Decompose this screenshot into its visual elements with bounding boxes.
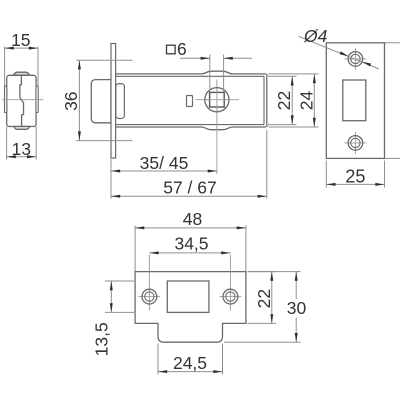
strike plate outline	[135, 272, 246, 343]
arrow 36 bottom	[78, 131, 81, 140]
latch opening	[343, 80, 366, 121]
arrow 48 left	[135, 226, 144, 229]
arrow 13 right	[27, 155, 36, 158]
dim line 25	[326, 183, 384, 185]
centerline horizontal	[2, 99, 44, 101]
arrow 22 top	[291, 76, 294, 85]
arrow 34,5 left	[149, 251, 158, 254]
dim 25 extension left	[325, 161, 327, 188]
arrow 30 bottom	[295, 333, 298, 342]
case right end outer line	[266, 74, 268, 127]
dim line 30 lower segment	[295, 318, 297, 343]
arrow 35/45 left	[111, 170, 120, 173]
arrow 57/67 left	[111, 195, 120, 198]
arrow 30 top	[295, 272, 298, 281]
dim line 24	[313, 74, 315, 127]
dim 48 extension right	[245, 226, 247, 272]
dim 30 extension top	[248, 271, 301, 273]
hole centerline right vertical	[229, 255, 231, 311]
svg-text:25: 25	[345, 167, 365, 187]
svg-text:36: 36	[61, 91, 81, 110]
arrow square6 right	[224, 57, 233, 60]
latch bolt side view	[91, 80, 111, 123]
frame line from plate bottom right corner	[385, 157, 400, 159]
arrow 13,5 bottom	[110, 303, 113, 312]
dim line 48	[135, 227, 246, 229]
dim square6 extension left	[209, 54, 211, 91]
arrow 24 bottom	[313, 118, 316, 127]
dim 30 extension bottom	[224, 341, 301, 343]
top screw hole inner	[351, 54, 360, 63]
arrow 57/67 right	[258, 195, 267, 198]
svg-text:13: 13	[12, 139, 31, 159]
arrow 22bv top	[270, 272, 273, 281]
extension line right outer (dim 15)	[37, 47, 39, 114]
spring detail small rect	[187, 96, 193, 107]
arrow 25 left	[326, 183, 335, 186]
arrow 25 right	[375, 183, 384, 186]
leader arrow lower right	[362, 62, 371, 67]
arrow 48 right	[237, 226, 246, 229]
dim line 35/45	[111, 170, 217, 172]
bolt face profile line	[20, 76, 24, 127]
svg-text:57 / 67: 57 / 67	[163, 177, 217, 197]
dim 25 extension right	[384, 161, 386, 188]
dim square6 right tail	[224, 57, 252, 59]
top screw hole crosshair horizontal	[344, 58, 366, 60]
svg-text:35/ 45: 35/ 45	[140, 153, 189, 173]
arrow 22bv bottom	[270, 314, 273, 323]
svg-text:Ø4: Ø4	[303, 26, 328, 46]
top screw hole outer	[348, 52, 363, 67]
svg-text:6: 6	[177, 39, 187, 59]
top screw hole crosshair vertical	[354, 48, 356, 70]
arrow 15 left	[5, 47, 14, 50]
dim line 24,5	[158, 371, 223, 373]
follower centerline vertical	[216, 88, 218, 112]
bolt guide bracket	[116, 84, 125, 119]
dim 24 extension top	[269, 73, 319, 75]
arrow 24,5 right	[213, 370, 222, 373]
dim 24,5 extension right	[222, 344, 224, 375]
case bottom outer line with hub bump	[116, 127, 266, 130]
bottom screw hole inner	[351, 138, 360, 147]
diameter leader line	[299, 36, 379, 69]
left hole outer	[142, 289, 157, 304]
left hole crosshair horizontal	[139, 296, 161, 298]
hole centerline left vertical	[148, 255, 150, 311]
extension line left outer (dim 15)	[4, 47, 6, 114]
svg-text:24: 24	[296, 91, 316, 111]
svg-text:22: 22	[274, 91, 294, 110]
dim 22 extension bottom	[268, 124, 297, 126]
dim line 30 upper segment	[295, 272, 297, 299]
svg-text:15: 15	[11, 30, 30, 50]
dim line 15	[5, 47, 38, 49]
arrow 34,5 right	[221, 251, 230, 254]
arrow 36 top	[78, 60, 81, 69]
case right end inner line	[263, 76, 265, 124]
hub horizontal centerline	[196, 99, 240, 101]
dim line 22	[291, 76, 293, 124]
spindle hub circle	[205, 88, 229, 112]
hub vertical centerline	[216, 80, 218, 175]
case end extension line below	[266, 130, 268, 199]
right tab	[36, 86, 38, 112]
dim 13,5 extension bottom	[105, 311, 134, 313]
arrow 13,5 top	[110, 281, 113, 290]
faceplate side view	[111, 44, 116, 159]
square symbol of dim 6	[167, 45, 176, 54]
dim line 13	[7, 156, 37, 158]
dim line 13,5	[110, 281, 112, 312]
case top outer line with hub bump	[116, 71, 266, 74]
arrow square6 left	[201, 57, 210, 60]
bolt body front view	[7, 75, 36, 126]
latch opening rect	[167, 281, 209, 312]
dim 22 extension top	[268, 75, 297, 77]
dim 24,5 extension left	[157, 344, 159, 375]
svg-text:24,5: 24,5	[173, 353, 207, 373]
svg-text:22: 22	[254, 289, 274, 308]
dim 13,5 extension top	[105, 280, 134, 282]
svg-text:13,5: 13,5	[92, 322, 112, 356]
dim 22 extension bottom (bottom view)	[248, 322, 277, 324]
left hole inner	[145, 292, 154, 301]
faceplate extension line below	[110, 159, 112, 198]
extension line left inner (dim 13)	[6, 127, 8, 160]
extension line right inner (dim 13)	[35, 127, 37, 160]
faceplate front view	[326, 43, 384, 159]
bottom dome	[14, 126, 30, 129]
svg-text:48: 48	[183, 209, 202, 229]
square follower	[210, 92, 225, 107]
right hole crosshair horizontal	[220, 296, 242, 298]
arrow 13 left	[7, 155, 16, 158]
dim line 57/67	[111, 195, 267, 197]
bottom screw hole crosshair horizontal	[344, 142, 366, 144]
right hole outer	[223, 289, 238, 304]
follower centerline horizontal	[205, 99, 229, 101]
leader arrow upper left	[340, 51, 349, 56]
dim 22 extension top (bottom view)	[248, 271, 277, 273]
dim line 36	[78, 60, 80, 140]
left tab	[5, 86, 7, 112]
svg-text:30: 30	[287, 298, 307, 318]
dim 24 extension bottom	[269, 126, 319, 128]
svg-text:34,5: 34,5	[174, 233, 208, 253]
dim 48 extension left	[134, 226, 136, 272]
arrow 24 top	[313, 74, 316, 83]
case top inner line	[116, 75, 264, 77]
frame line from plate top right corner	[385, 42, 400, 44]
case bottom inner line	[116, 124, 264, 126]
arrow 24,5 left	[158, 370, 167, 373]
right hole inner	[226, 292, 235, 301]
arrow 15 right	[29, 47, 38, 50]
dim 36 extension line bottom	[76, 140, 133, 142]
top dome	[14, 72, 30, 75]
bottom screw hole outer	[348, 136, 363, 151]
dim line 34,5	[149, 252, 230, 254]
arrow 35/45 right	[208, 170, 217, 173]
arrow 22 bottom	[291, 115, 294, 124]
bottom screw hole crosshair vertical	[354, 132, 356, 154]
dim line 22 bottom view	[271, 272, 273, 324]
dim square6 extension right	[223, 54, 225, 91]
dim 36 extension line top	[76, 59, 133, 61]
dim square6 left tail	[180, 57, 210, 59]
